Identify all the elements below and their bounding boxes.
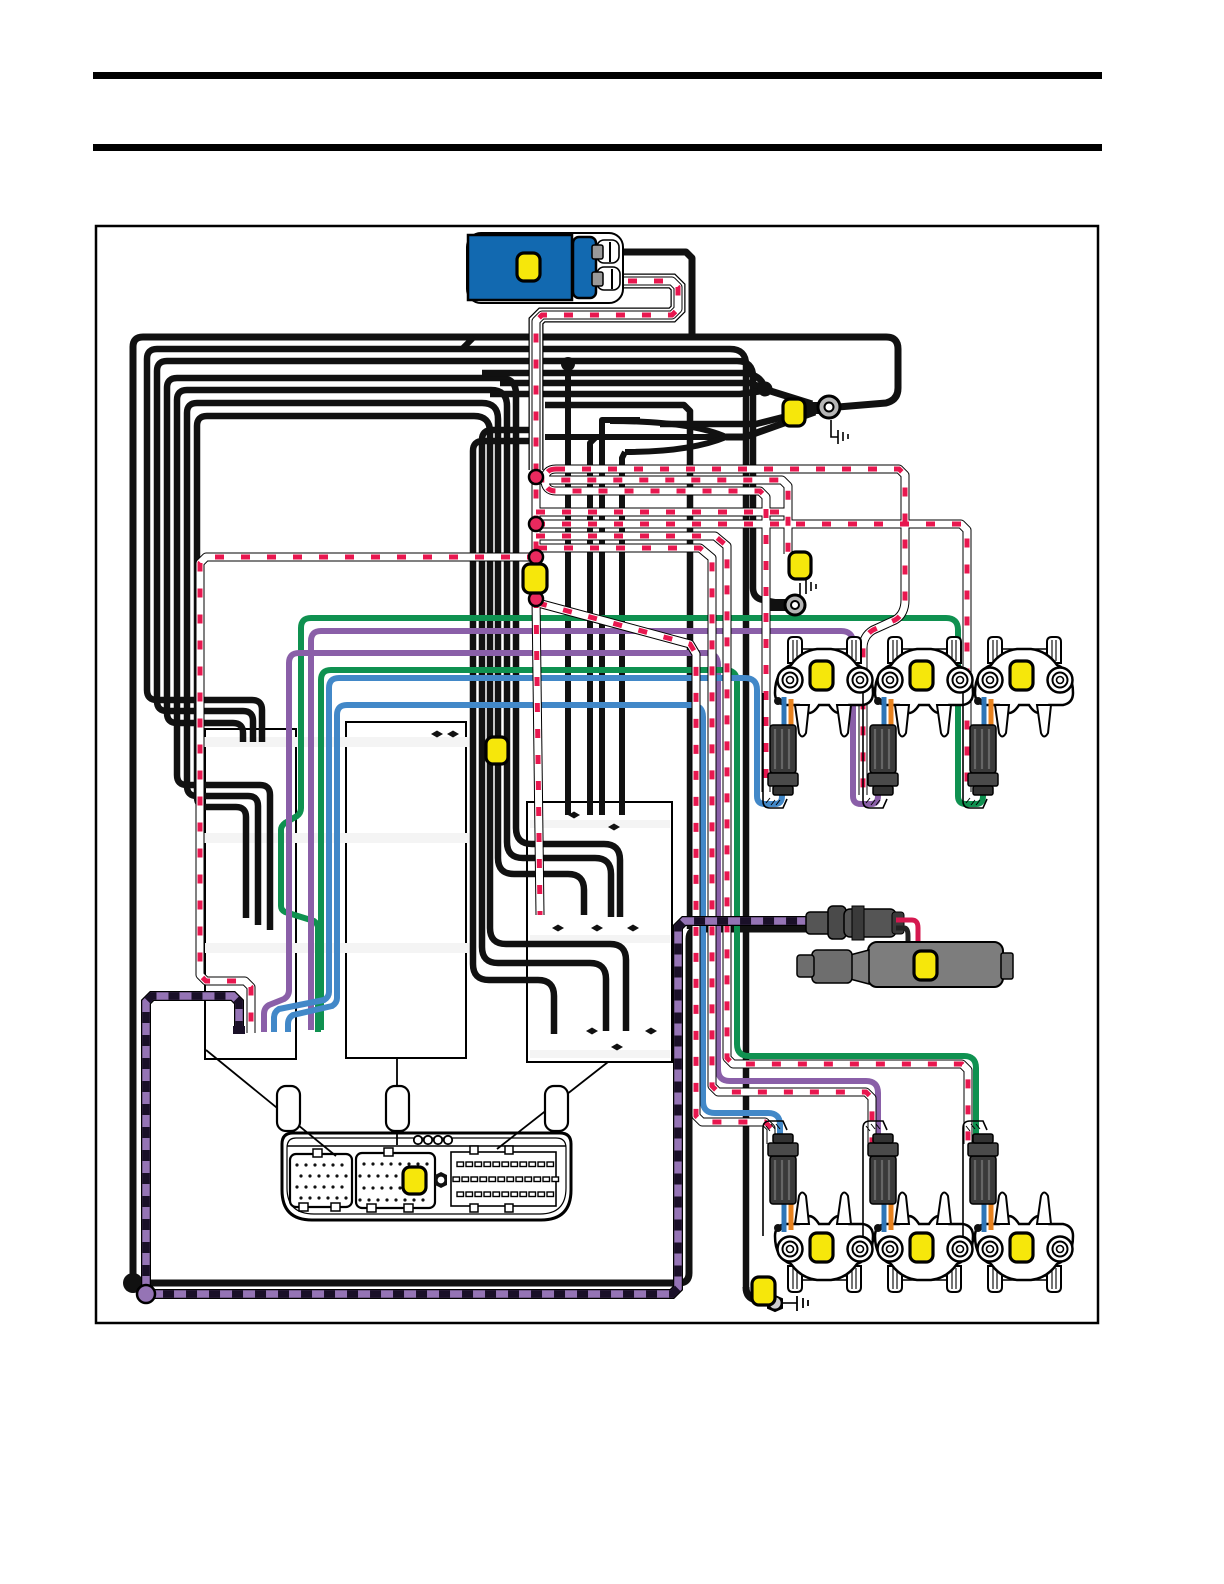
green wire to coil 3 [281, 618, 983, 1032]
sensor connector housing [806, 912, 832, 934]
label: coil 2 [910, 661, 933, 690]
purple-dash wire to crankshaft sensor [146, 921, 806, 1294]
ECU connector block C (pin slots) [451, 1152, 556, 1206]
wire: fan feed 2 to junction [500, 383, 764, 388]
ring terminal 1 [806, 402, 822, 414]
sensor black wire [896, 928, 908, 958]
label: coil 5 [910, 1233, 933, 1262]
pin tick bottom [611, 269, 613, 289]
connector box middle [346, 722, 466, 1058]
ECU top rail line [287, 1145, 566, 1147]
wire: fan feed 3 to junction [490, 391, 762, 394]
label: engine ground [789, 552, 811, 579]
wire: harness to bottom ground (long vertical) [147, 349, 746, 1287]
ground symbol 1 [831, 420, 838, 437]
pointer line middle [396, 1058, 398, 1145]
blue wire to coil 1 [274, 678, 782, 1032]
pill connector right [545, 1086, 568, 1131]
label: ECU [403, 1167, 426, 1194]
wire: sensor loop (black/left outer) [133, 337, 898, 1283]
diagram border frame [96, 226, 1098, 1323]
ECU hex nut [435, 1172, 447, 1188]
junction dot fan [758, 382, 773, 397]
connector box right [527, 802, 672, 1062]
wire: fan feed 1 to junction [482, 373, 764, 386]
ignition coil 6 (bottom, mirrored) [963, 1121, 1073, 1292]
label: bottom ground [752, 1277, 775, 1305]
pill connector left [277, 1086, 300, 1131]
wire: sensor pigtail horizontal [689, 926, 806, 933]
green wire to coil 6 [321, 670, 976, 1146]
wire: ring terminal 2 feed [157, 361, 790, 742]
ECU connector block B (dots + label) [356, 1153, 435, 1208]
wire: fan feed 4 to ring terminal 1 [660, 409, 815, 424]
wire: junction to ring terminal 1 [764, 389, 812, 404]
block B tabs [384, 1148, 393, 1156]
wire: battery positive from blue module [600, 252, 692, 337]
label: coil 4 [810, 1233, 833, 1262]
junction dot n2 [529, 517, 543, 531]
index diamonds [431, 731, 657, 1051]
purple terminal circle [137, 1285, 155, 1303]
ignition coil 2 (top) [863, 637, 973, 808]
wire: merge jog [462, 337, 474, 349]
purple wire to coil 5 [264, 653, 878, 1146]
module cap blue [573, 237, 596, 298]
module outer housing outline [467, 233, 623, 303]
sensor red wire [896, 920, 918, 958]
wire: center vertical E [482, 430, 606, 1031]
sensor module body [868, 942, 1003, 987]
ignition coil 4 (bottom, mirrored) [763, 1121, 873, 1292]
pin housing top [597, 240, 619, 263]
junction dot n1 [529, 470, 543, 484]
wire: trident prong 3 [625, 437, 726, 452]
ECU connector block A (dots) [290, 1154, 352, 1207]
sensor module right cap [1001, 953, 1013, 979]
junction dot n4 [529, 592, 543, 606]
wire: trident prong 1 [610, 421, 726, 437]
junction dot bottom left [123, 1273, 143, 1293]
wire: tangle vertical c [602, 420, 640, 815]
sensor module bevel left [850, 950, 869, 984]
sensor module left plug [812, 950, 852, 983]
wire: trident prong 2 [545, 434, 726, 440]
wire: trident output to ring terminal 1 [726, 412, 815, 437]
block A tabs [313, 1149, 322, 1157]
purple wire to coil 2 [311, 631, 878, 1030]
wire: module drop to sensor loop vertical [545, 405, 690, 929]
faint shading bands [203, 737, 670, 1058]
pointer line left [206, 1050, 336, 1156]
wire: tangle vertical b [590, 437, 596, 815]
ECU outer shell [282, 1133, 571, 1220]
ring terminal 2 [770, 599, 788, 611]
ignition coil 5 (bottom, mirrored) [863, 1121, 973, 1292]
wire: left box to right box 2 [177, 390, 611, 930]
label: coil 3 [1010, 661, 1033, 690]
ignition coil 1 (top) [763, 637, 873, 808]
ground symbol 2 (below yellow label) [794, 583, 800, 595]
module body blue [468, 235, 572, 300]
wire: center vertical F [473, 441, 554, 1034]
wire: tangle vertical a [565, 361, 571, 815]
ignition coil 3 (top) [963, 637, 1073, 808]
connector box left [205, 729, 296, 1059]
pin bottom [592, 272, 603, 286]
pointer line right [497, 1062, 608, 1149]
block C tabs [470, 1146, 478, 1154]
label: coil 1 [810, 661, 833, 690]
junction dot [561, 357, 575, 371]
label: coil 6 [1010, 1233, 1033, 1262]
label: sensor module [914, 951, 937, 980]
pin tick top [609, 242, 611, 262]
top rule bar 1 [93, 72, 1102, 79]
label: dashed harness node [523, 564, 547, 593]
pin top [592, 245, 603, 259]
ECU index circles [414, 1136, 422, 1144]
blue wire to coil 4 [288, 705, 780, 1146]
wire: left box to right box 1 [167, 378, 620, 917]
ground bolt bottom [746, 1287, 775, 1303]
label: blue module [517, 253, 540, 281]
wire: left box to right box 3 [187, 403, 584, 925]
top rule bar 2 [93, 144, 1102, 151]
wire: tangle vertical d (trident lower prong) [622, 452, 625, 815]
pin housing bottom [597, 267, 620, 290]
label: ring terminal 1 [783, 399, 805, 426]
junction dot n3 [529, 550, 543, 564]
wire: left box to right box 4 [197, 416, 626, 1031]
label: center bundle [486, 737, 508, 764]
pill connector middle [386, 1086, 409, 1131]
harness tube outline around module lead [536, 281, 678, 470]
